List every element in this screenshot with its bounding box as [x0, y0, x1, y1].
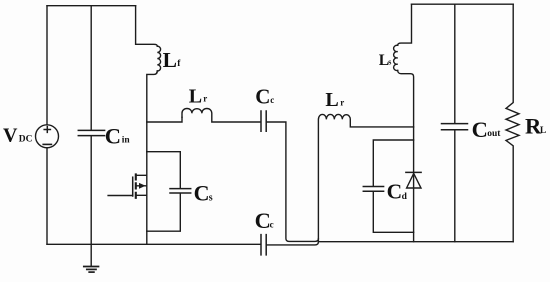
svg-text:V: V: [3, 125, 18, 147]
svg-text:s: s: [209, 193, 213, 204]
svg-text:out: out: [487, 129, 501, 139]
svg-text:C: C: [105, 123, 121, 148]
svg-text:in: in: [122, 136, 131, 146]
svg-text:DC: DC: [19, 135, 33, 145]
svg-text:r: r: [203, 94, 207, 104]
svg-text:C: C: [255, 85, 270, 109]
svg-text:L: L: [189, 85, 202, 107]
svg-text:C: C: [472, 117, 488, 142]
svg-text:L: L: [325, 89, 338, 111]
svg-text:c: c: [270, 219, 274, 229]
svg-text:C: C: [387, 180, 403, 204]
svg-text:L: L: [540, 126, 546, 136]
svg-text:r: r: [340, 98, 344, 108]
svg-text:C: C: [255, 208, 271, 233]
svg-text:d: d: [402, 192, 408, 202]
svg-text:f: f: [177, 59, 181, 69]
svg-text:s: s: [388, 58, 391, 67]
svg-text:c: c: [270, 95, 274, 105]
svg-text:L: L: [163, 48, 177, 72]
svg-text:C: C: [194, 181, 210, 206]
